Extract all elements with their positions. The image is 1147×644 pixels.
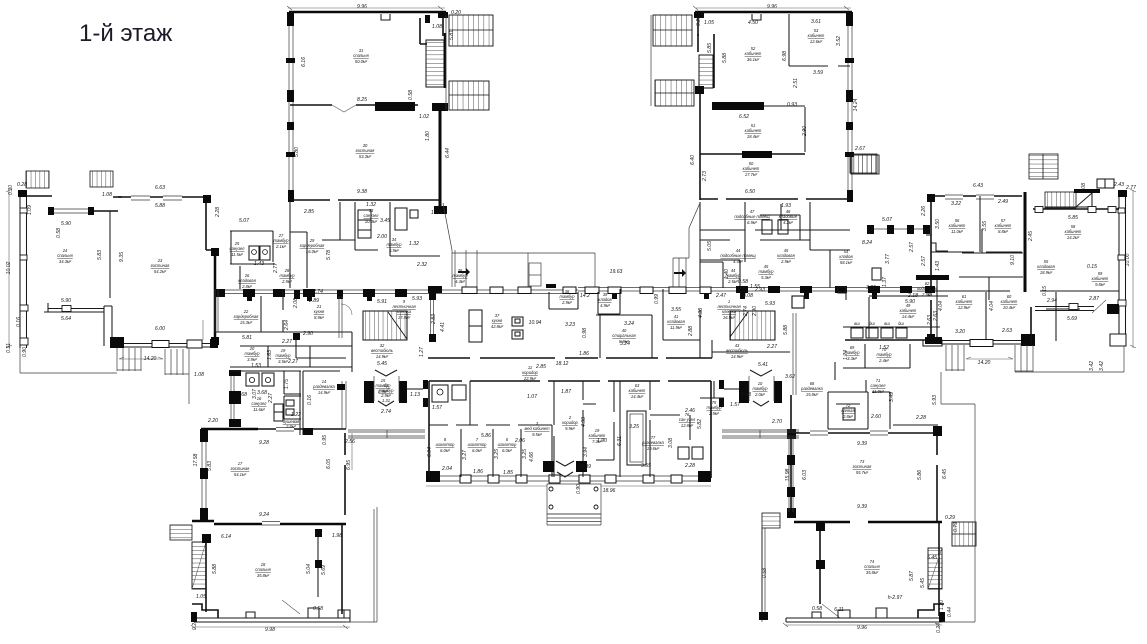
svg-text:9.96: 9.96 bbox=[857, 625, 867, 631]
svg-text:2.28: 2.28 bbox=[915, 415, 926, 421]
pier: top right corner blocks bbox=[438, 12, 448, 18]
wall: room73 left bbox=[790, 395, 792, 515]
svg-text:6.44: 6.44 bbox=[445, 148, 451, 158]
svg-text:коридор: коридор bbox=[522, 370, 538, 375]
wall: block top bbox=[429, 380, 711, 382]
svg-text:3.42: 3.42 bbox=[1089, 361, 1095, 371]
svg-text:0.95: 0.95 bbox=[322, 435, 328, 445]
door diag room18 bbox=[282, 600, 300, 614]
svg-text:6.31: 6.31 bbox=[617, 436, 623, 446]
svg-text:11.6м²: 11.6м² bbox=[253, 407, 265, 412]
sanitary fixtures 34 bbox=[762, 220, 772, 234]
svg-text:11.9м²: 11.9м² bbox=[872, 389, 884, 394]
wall: room24 bottom (terrace door band) bbox=[48, 309, 104, 313]
room label 34 bbox=[387, 237, 403, 253]
vestibule 13 airlock left bbox=[364, 381, 374, 403]
connector step edge left wing (between block and lower-left wing) bbox=[351, 433, 353, 470]
svg-text:11.9м²: 11.9м² bbox=[670, 325, 682, 330]
stair: right stair upper (wide) bbox=[952, 522, 976, 546]
svg-text:2.45: 2.45 bbox=[1028, 231, 1034, 242]
svg-text:2.47: 2.47 bbox=[715, 293, 726, 299]
svg-text:5.85: 5.85 bbox=[1068, 215, 1078, 221]
svg-text:34.3м²: 34.3м² bbox=[59, 259, 72, 264]
wall: recess vertical band right wing bbox=[1030, 307, 1032, 345]
svg-text:2.8м²: 2.8м² bbox=[842, 414, 853, 419]
colonnade: entry columns far-right wing bbox=[867, 228, 929, 230]
room label 54 bbox=[839, 249, 853, 265]
svg-text:вш: вш bbox=[854, 321, 860, 326]
wall: room31 bottom bbox=[290, 104, 418, 106]
window band top (room24) bbox=[52, 209, 90, 213]
step lines below vestibule 13 bbox=[348, 430, 425, 438]
svg-text:1.53: 1.53 bbox=[251, 363, 261, 369]
svg-text:1.63: 1.63 bbox=[267, 350, 273, 360]
sanitary fixtures room 33 bbox=[395, 208, 407, 230]
svg-text:9.28: 9.28 bbox=[259, 440, 269, 446]
svg-text:3.62: 3.62 bbox=[785, 374, 795, 380]
partition: isolator rooms 8/7/6 bbox=[429, 425, 552, 477]
wall: corridor top pier wall (right part) bbox=[578, 288, 935, 291]
svg-text:6.05: 6.05 bbox=[326, 459, 332, 469]
svg-text:12.8м²: 12.8м² bbox=[681, 423, 694, 428]
wall: block right bbox=[710, 381, 712, 478]
svg-text:санузел: санузел bbox=[252, 401, 268, 406]
partition inside room18 right bbox=[317, 532, 319, 597]
svg-text:1.32: 1.32 bbox=[409, 241, 419, 247]
wall: top segment between stairs bbox=[94, 197, 122, 211]
pier: right wall piers bbox=[846, 12, 853, 26]
svg-text:0.58: 0.58 bbox=[408, 90, 414, 100]
svg-text:16.0м²: 16.0м² bbox=[306, 249, 319, 254]
svg-text:тамбур: тамбур bbox=[387, 242, 403, 247]
svg-text:3.55: 3.55 bbox=[982, 221, 988, 231]
room label 23 bbox=[151, 258, 171, 274]
svg-text:54.2м²: 54.2м² bbox=[154, 269, 167, 274]
svg-text:2.57: 2.57 bbox=[909, 242, 915, 253]
room label 21 bbox=[314, 304, 325, 320]
svg-text:2.74: 2.74 bbox=[312, 289, 323, 295]
svg-text:2.63: 2.63 bbox=[1001, 328, 1012, 334]
connector walls room75 area bbox=[700, 381, 724, 398]
dims lower-right wing bbox=[762, 392, 959, 633]
svg-text:1.05: 1.05 bbox=[196, 594, 206, 600]
svg-text:вестибюль: вестибюль bbox=[371, 348, 393, 353]
corridor left edge double bbox=[215, 289, 218, 332]
svg-text:2.70: 2.70 bbox=[771, 419, 782, 425]
svg-text:2.46: 2.46 bbox=[684, 408, 695, 414]
wall: far-left wing right lower bbox=[214, 250, 217, 344]
svg-text:2.06: 2.06 bbox=[514, 438, 525, 444]
svg-text:18.4м²: 18.4м² bbox=[747, 134, 760, 139]
svg-text:3.20: 3.20 bbox=[955, 329, 965, 335]
room label 44 bbox=[720, 248, 756, 264]
wall: room74 left outer bbox=[761, 528, 763, 618]
svg-text:10.02: 10.02 bbox=[6, 261, 12, 274]
svg-text:9.39: 9.39 bbox=[857, 504, 867, 510]
svg-text:6.11: 6.11 bbox=[834, 607, 844, 613]
room label 74 bbox=[864, 559, 880, 575]
svg-text:3.45: 3.45 bbox=[380, 218, 390, 224]
canopy thin right connector bbox=[673, 203, 700, 258]
svg-text:2.8м²: 2.8м² bbox=[285, 424, 296, 429]
svg-text:4.4м²: 4.4м² bbox=[733, 259, 743, 264]
wall: top-right block left upper bbox=[697, 12, 699, 36]
fixtures san-uzel 76 bbox=[678, 447, 689, 459]
wall: room74 right bbox=[938, 522, 940, 616]
room label 7 bbox=[468, 437, 487, 453]
wall: room23 top with windows bbox=[118, 196, 206, 198]
dims far-left wing bbox=[6, 182, 249, 378]
room label 45 bbox=[777, 248, 795, 264]
wall: room73 top bbox=[791, 432, 938, 434]
svg-text:3.25: 3.25 bbox=[522, 449, 528, 459]
terrace right outer thin bbox=[941, 346, 1124, 404]
stair: outer top-right stair lower bbox=[449, 81, 489, 110]
svg-text:3.61: 3.61 bbox=[811, 19, 821, 25]
stair: right vertical stair bbox=[928, 548, 942, 589]
svg-text:5.86: 5.86 bbox=[481, 433, 491, 439]
svg-text:5.93: 5.93 bbox=[932, 395, 938, 405]
svg-text:1.07: 1.07 bbox=[527, 394, 537, 400]
extra dims v2 bbox=[254, 131, 941, 415]
room label 33 bbox=[364, 208, 380, 224]
wall: room 1.75 strip bbox=[284, 371, 303, 435]
room label 53 bbox=[808, 28, 825, 44]
svg-text:8.25: 8.25 bbox=[357, 97, 367, 103]
svg-text:5.93: 5.93 bbox=[412, 296, 422, 302]
svg-text:1.28: 1.28 bbox=[431, 210, 441, 216]
svg-text:2.90: 2.90 bbox=[802, 126, 808, 137]
svg-text:5.45: 5.45 bbox=[377, 361, 387, 367]
partition: rooms 56/57 bbox=[979, 196, 981, 252]
room22 right wall bbox=[260, 296, 262, 332]
svg-text:6.50: 6.50 bbox=[745, 189, 755, 195]
svg-text:14.2: 14.2 bbox=[580, 293, 590, 299]
svg-text:4.4м²: 4.4м² bbox=[455, 279, 465, 284]
svg-text:спальня: спальня bbox=[864, 564, 880, 569]
room label 32 vestibule bbox=[371, 343, 393, 359]
svg-text:5.93: 5.93 bbox=[765, 301, 775, 307]
svg-text:2.4м²: 2.4м² bbox=[878, 358, 889, 363]
svg-text:2.51: 2.51 bbox=[793, 78, 799, 89]
svg-text:10.94: 10.94 bbox=[529, 320, 542, 326]
svg-text:2.27: 2.27 bbox=[268, 393, 274, 404]
svg-text:3.49: 3.49 bbox=[889, 392, 895, 402]
svg-text:4.2м²: 4.2м² bbox=[783, 220, 793, 225]
dimension line far left bbox=[6, 189, 12, 348]
svg-text:стиральная: стиральная bbox=[612, 333, 636, 338]
svg-text:2.26: 2.26 bbox=[921, 206, 927, 217]
svg-text:2.93: 2.93 bbox=[754, 287, 765, 293]
stair: bottom stair A far-right wing bbox=[946, 345, 964, 371]
svg-text:9.5м²: 9.5м² bbox=[532, 432, 542, 437]
svg-text:2.74: 2.74 bbox=[743, 306, 749, 317]
wall: corridor bottom (left part) bbox=[428, 357, 712, 359]
wall: vestibule 12 east bbox=[431, 296, 434, 341]
svg-text:тамбур: тамбур bbox=[453, 273, 469, 278]
svg-text:14.20: 14.20 bbox=[144, 356, 157, 362]
wall: rooms 19 area bbox=[596, 381, 620, 477]
svg-text:2.89: 2.89 bbox=[308, 298, 319, 304]
svg-text:кладовые: кладовые bbox=[779, 214, 798, 219]
svg-text:14.9м²: 14.9м² bbox=[731, 354, 744, 359]
svg-text:3.42: 3.42 bbox=[1099, 361, 1105, 371]
svg-text:6.45: 6.45 bbox=[942, 469, 948, 479]
canopy: central entrance outline bbox=[443, 203, 595, 287]
wall: med room 3 and corridor 2 bbox=[554, 381, 596, 477]
svg-text:6.43: 6.43 bbox=[973, 183, 983, 189]
svg-text:2.90: 2.90 bbox=[302, 331, 313, 337]
svg-text:2.63: 2.63 bbox=[933, 311, 939, 322]
rooms 69/70 walls bbox=[843, 344, 910, 368]
room label 27 bbox=[274, 233, 290, 249]
svg-text:2.49: 2.49 bbox=[997, 199, 1008, 205]
svg-text:2.08: 2.08 bbox=[293, 298, 299, 309]
svg-text:0.90: 0.90 bbox=[22, 347, 28, 357]
stair: bottom stair A far-left wing bbox=[117, 348, 141, 371]
dimension line top-left block bbox=[287, 6, 445, 10]
stair: far-right wide stair with diagonal bbox=[1045, 192, 1076, 208]
svg-text:6.0м²: 6.0м² bbox=[502, 448, 512, 453]
window sill marks left wall bbox=[286, 58, 295, 63]
svg-text:1.08: 1.08 bbox=[1081, 183, 1087, 193]
small box room 54 bbox=[872, 268, 881, 280]
svg-text:2.83: 2.83 bbox=[431, 314, 437, 325]
svg-text:5.78: 5.78 bbox=[326, 250, 332, 260]
svg-text:0.16: 0.16 bbox=[16, 317, 22, 327]
ramp: central-left entrance bbox=[455, 250, 477, 287]
svg-text:0.15: 0.15 bbox=[1087, 264, 1097, 270]
svg-text:4.66: 4.66 bbox=[529, 452, 535, 462]
svg-text:кабинет: кабинет bbox=[745, 51, 762, 56]
dims central band bbox=[284, 254, 939, 370]
porch steps bbox=[547, 514, 601, 525]
wc cubicles room16 bbox=[246, 373, 259, 386]
svg-text:5.90: 5.90 bbox=[61, 221, 71, 227]
room label 73 bbox=[853, 459, 873, 475]
wall: room71 west bbox=[834, 362, 836, 380]
svg-text:кладовая: кладовая bbox=[667, 319, 685, 324]
svg-text:42.8м²: 42.8м² bbox=[491, 324, 504, 329]
room label 76 bbox=[679, 412, 696, 428]
porch: central bottom bbox=[547, 484, 601, 514]
svg-text:9.9м²: 9.9м² bbox=[565, 426, 575, 431]
room label 24 bbox=[57, 248, 73, 264]
svg-text:дш: дш bbox=[898, 321, 904, 326]
terrace bottom far-left bbox=[20, 348, 189, 404]
wall: between 57 and 58 thick bbox=[1024, 192, 1027, 292]
window doubles room17/18 divider bbox=[262, 522, 280, 526]
svg-text:6.9м²: 6.9м² bbox=[747, 220, 757, 225]
stair: vertical stair left of room18 bbox=[192, 542, 206, 589]
svg-text:санузел: санузел bbox=[230, 246, 246, 251]
ramp: central-right entrance bbox=[673, 258, 686, 287]
svg-text:2.27: 2.27 bbox=[766, 344, 777, 350]
rooms 20/19 walls left-center bbox=[230, 346, 352, 367]
terrace thin right of room18 bbox=[346, 507, 377, 622]
svg-text:1.02: 1.02 bbox=[419, 114, 429, 120]
svg-text:0.58: 0.58 bbox=[56, 228, 62, 238]
svg-text:5.9м²: 5.9м² bbox=[389, 248, 399, 253]
room label 18 bbox=[255, 562, 271, 578]
svg-text:2.32: 2.32 bbox=[416, 262, 427, 268]
cabinet strip bbox=[274, 404, 283, 421]
svg-text:5.88: 5.88 bbox=[722, 53, 728, 63]
svg-text:6.16: 6.16 bbox=[301, 57, 307, 67]
wall: room49 left vertical bbox=[868, 297, 870, 338]
room label 28 bbox=[280, 268, 296, 284]
dimension line top-right block bbox=[693, 6, 851, 10]
wall: under rooms 56/57 bbox=[931, 251, 1022, 253]
svg-text:5.82: 5.82 bbox=[697, 419, 703, 429]
svg-text:3.55: 3.55 bbox=[671, 307, 681, 313]
svg-text:15.8м²: 15.8м² bbox=[806, 392, 819, 397]
pier at room14 wall bbox=[303, 428, 313, 435]
stair: top-left small stair A bbox=[26, 171, 49, 188]
wall: corridor right area bbox=[869, 229, 1023, 338]
svg-text:1.52: 1.52 bbox=[879, 345, 889, 351]
svg-text:3.52: 3.52 bbox=[836, 36, 842, 46]
room label 63 bbox=[629, 383, 646, 399]
svg-text:3.5м²: 3.5м² bbox=[278, 359, 288, 364]
svg-text:гостиная: гостиная bbox=[356, 148, 376, 153]
svg-text:тамбур: тамбур bbox=[560, 294, 576, 299]
wall: room54 column bbox=[838, 287, 846, 300]
svg-text:кладовая: кладовая bbox=[238, 278, 256, 283]
svg-text:5.87: 5.87 bbox=[909, 571, 915, 581]
svg-text:1.98: 1.98 bbox=[332, 533, 342, 539]
svg-text:дш: дш bbox=[869, 321, 875, 326]
wall: far-right wing top with windows bbox=[931, 195, 1022, 197]
room label 36 bbox=[453, 268, 469, 284]
room label 77 bbox=[641, 435, 664, 451]
svg-text:2.67: 2.67 bbox=[854, 146, 865, 152]
svg-text:3.94: 3.94 bbox=[583, 447, 589, 457]
small bump on top wall bbox=[381, 14, 390, 20]
svg-text:19.63: 19.63 bbox=[610, 269, 623, 275]
svg-text:9.35: 9.35 bbox=[119, 252, 125, 262]
svg-text:0.31: 0.31 bbox=[6, 343, 12, 353]
wall: room17/18 divider bbox=[192, 521, 346, 524]
svg-text:3.77: 3.77 bbox=[885, 254, 891, 264]
rooms 25/26 block bbox=[230, 231, 275, 289]
svg-text:1.13: 1.13 bbox=[410, 392, 420, 398]
svg-text:5.64: 5.64 bbox=[61, 316, 71, 322]
stair: stairwell hatch inside top-left block bbox=[426, 40, 444, 87]
svg-text:1.43: 1.43 bbox=[935, 261, 941, 271]
svg-text:клетка: клетка bbox=[397, 309, 412, 314]
svg-text:14.20: 14.20 bbox=[978, 360, 991, 366]
svg-text:19.6м²: 19.6м² bbox=[647, 446, 660, 451]
room label 68 bbox=[800, 381, 823, 397]
svg-text:11.0м²: 11.0м² bbox=[951, 229, 963, 234]
svg-text:16.9м²: 16.9м² bbox=[723, 315, 736, 320]
svg-text:6.03: 6.03 bbox=[802, 470, 808, 480]
door diag room74 bbox=[822, 604, 840, 618]
svg-text:1.08: 1.08 bbox=[432, 24, 442, 30]
svg-text:1.86: 1.86 bbox=[579, 351, 589, 357]
svg-text:4.04: 4.04 bbox=[989, 301, 995, 311]
svg-text:3.24: 3.24 bbox=[624, 321, 634, 327]
svg-text:гостиная: гостиная bbox=[231, 466, 251, 471]
svg-text:3.22: 3.22 bbox=[951, 201, 961, 207]
svg-text:50.0м²: 50.0м² bbox=[355, 59, 368, 64]
room label 71 bbox=[871, 378, 887, 394]
svg-text:1.80: 1.80 bbox=[425, 131, 431, 141]
svg-text:4.41: 4.41 bbox=[440, 322, 446, 332]
svg-text:5.41: 5.41 bbox=[758, 362, 768, 368]
svg-text:1.89: 1.89 bbox=[581, 464, 591, 470]
svg-text:1.43: 1.43 bbox=[254, 261, 264, 267]
svg-text:0.90: 0.90 bbox=[576, 484, 582, 494]
room label 51 bbox=[745, 123, 762, 139]
svg-text:0.20: 0.20 bbox=[451, 10, 461, 16]
wall: far-left wing main left band bbox=[20, 196, 27, 348]
wall: room21 right boundary bbox=[339, 296, 342, 338]
svg-text:1.40: 1.40 bbox=[724, 269, 730, 279]
svg-text:1-й этаж: 1-й этаж bbox=[79, 20, 172, 47]
room 37: bookcase rect bbox=[469, 310, 482, 342]
svg-text:кабинет: кабинет bbox=[1092, 276, 1109, 281]
svg-text:2.9м²: 2.9м² bbox=[561, 300, 572, 305]
wall: right connector bbox=[890, 392, 938, 429]
svg-text:12.9м²: 12.9м² bbox=[958, 305, 971, 310]
svg-text:53.3м²: 53.3м² bbox=[359, 154, 372, 159]
svg-text:4.38: 4.38 bbox=[698, 308, 704, 318]
svg-text:0.15: 0.15 bbox=[1042, 286, 1048, 296]
wall: room 39 box bbox=[598, 292, 620, 314]
left wing terrace double bbox=[373, 509, 375, 622]
room label 19 bbox=[589, 428, 606, 444]
svg-text:кабинет: кабинет bbox=[956, 299, 973, 304]
room label 25 bbox=[230, 241, 246, 257]
room label 30 bbox=[356, 143, 376, 159]
svg-text:5.91: 5.91 bbox=[377, 299, 387, 305]
svg-text:кладовая: кладовая bbox=[1037, 264, 1055, 269]
svg-text:1.85: 1.85 bbox=[503, 470, 513, 476]
svg-text:тамбур: тамбур bbox=[274, 238, 290, 243]
svg-text:кабинет: кабинет bbox=[808, 33, 825, 38]
dim additions bbox=[242, 287, 765, 345]
svg-text:0.28: 0.28 bbox=[17, 182, 27, 188]
svg-text:раздевалка: раздевалка bbox=[312, 384, 335, 389]
wall: top-left block left (window wall) bbox=[289, 14, 293, 200]
svg-text:подсобные помещ: подсобные помещ bbox=[720, 253, 756, 258]
room label 59 bbox=[1092, 271, 1109, 287]
svg-text:17.58: 17.58 bbox=[193, 453, 199, 466]
svg-text:кухня: кухня bbox=[492, 318, 503, 323]
room label 41 bbox=[667, 314, 685, 330]
svg-text:2.94: 2.94 bbox=[1046, 298, 1057, 304]
svg-text:10.00: 10.00 bbox=[1125, 253, 1131, 266]
svg-text:2.1м²: 2.1м² bbox=[275, 244, 286, 249]
svg-text:1.27: 1.27 bbox=[419, 347, 425, 357]
wall: room 58 top bbox=[1033, 208, 1119, 210]
svg-text:11.5м²: 11.5м² bbox=[231, 252, 243, 257]
svg-text:5.83: 5.83 bbox=[207, 461, 213, 471]
svg-text:2.04: 2.04 bbox=[441, 466, 452, 472]
rooms 47/48 walls and labels bbox=[700, 204, 850, 230]
svg-text:14.2м²: 14.2м² bbox=[1067, 235, 1080, 240]
svg-text:тамбур: тамбур bbox=[245, 351, 261, 356]
room label 37 bbox=[491, 313, 504, 329]
svg-text:раздевалка: раздевалка bbox=[800, 386, 823, 391]
svg-text:2.9м²: 2.9м² bbox=[281, 279, 292, 284]
svg-text:2.90: 2.90 bbox=[752, 306, 758, 317]
room label 55 bbox=[1037, 259, 1055, 275]
svg-text:6.98: 6.98 bbox=[782, 51, 788, 61]
svg-text:6.0м²: 6.0м² bbox=[440, 448, 450, 453]
